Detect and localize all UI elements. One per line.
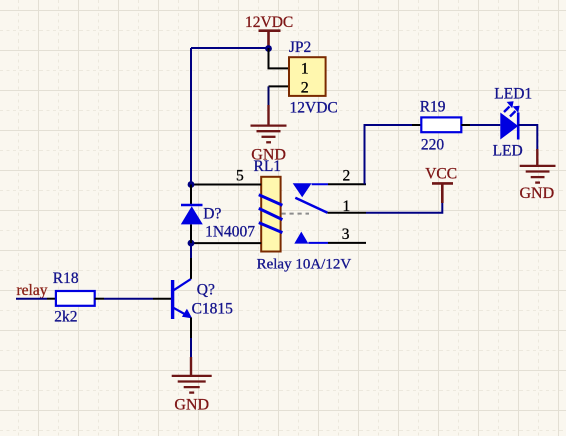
svg-text:LED: LED xyxy=(493,143,523,160)
svg-text:2k2: 2k2 xyxy=(54,309,77,326)
svg-text:GND: GND xyxy=(174,397,209,414)
ground GND (right of LED) xyxy=(520,149,556,202)
svg-text:3: 3 xyxy=(342,226,350,243)
wire pin2 to R19 xyxy=(365,125,413,184)
LED LED1 xyxy=(493,86,533,160)
svg-text:5: 5 xyxy=(236,168,244,185)
wire LED cathode to ground xyxy=(518,125,537,150)
diode D? pin top xyxy=(190,185,192,206)
relay contact NO (bottom triangle) xyxy=(294,232,328,244)
svg-text:Q?: Q? xyxy=(197,282,215,299)
resistor R18 xyxy=(47,270,104,325)
transistor Q1 C1815 xyxy=(173,279,234,319)
diode D? 1N4007 xyxy=(181,205,255,241)
wire relay net to R18 xyxy=(16,298,47,300)
wire top horizontal xyxy=(191,47,269,49)
junction 12VDC node xyxy=(265,45,272,52)
wire R19 to LED xyxy=(470,124,500,126)
svg-text:R18: R18 xyxy=(53,270,79,287)
svg-text:2: 2 xyxy=(343,168,351,185)
svg-text:JP2: JP2 xyxy=(289,39,311,56)
svg-text:220: 220 xyxy=(421,137,445,154)
svg-text:Relay 10A/12V: Relay 10A/12V xyxy=(257,257,352,273)
svg-text:C1815: C1815 xyxy=(192,301,234,318)
svg-text:VCC: VCC xyxy=(425,166,457,183)
svg-text:GND: GND xyxy=(520,185,555,202)
pin Q collector xyxy=(190,258,192,279)
ground GND (under JP2) xyxy=(251,105,287,164)
wire left vertical xyxy=(190,48,192,185)
svg-text:relay: relay xyxy=(17,282,48,299)
power port 12VDC (top) xyxy=(245,14,293,48)
ground GND (bottom, under Q) xyxy=(172,357,212,414)
svg-text:12VDC: 12VDC xyxy=(245,14,293,31)
pin 2 (contact) xyxy=(328,183,366,185)
power port VCC xyxy=(425,166,457,203)
resistor R19 xyxy=(412,99,470,154)
relay contact NC (top triangle) xyxy=(293,183,328,197)
svg-text:R19: R19 xyxy=(420,99,446,116)
pin 5 (coil top) xyxy=(191,184,261,186)
svg-text:D?: D? xyxy=(203,206,221,223)
wire JP2 pin2 to ground xyxy=(268,86,270,107)
connector JP2 xyxy=(269,39,338,116)
svg-text:12VDC: 12VDC xyxy=(290,99,338,116)
junction diode bottom node xyxy=(188,240,195,247)
svg-text:RL1: RL1 xyxy=(254,158,282,175)
pin Q emitter xyxy=(190,318,192,339)
pin (coil bottom) xyxy=(191,242,261,244)
pin 3 (contact) xyxy=(328,242,366,244)
wire collector to junction xyxy=(190,243,192,258)
svg-text:2: 2 xyxy=(301,80,309,97)
pin Q base xyxy=(153,298,171,300)
svg-text:LED1: LED1 xyxy=(494,86,532,103)
pin 1 (common contact) xyxy=(328,212,367,214)
wire pin1 to VCC xyxy=(366,202,442,213)
relay armature xyxy=(295,198,327,213)
relay actuation dashed link xyxy=(282,213,310,215)
svg-text:1: 1 xyxy=(343,198,351,215)
wire emitter to ground xyxy=(190,338,192,357)
junction diode top node xyxy=(188,181,195,188)
relay RL1 coil xyxy=(259,177,283,252)
diode D? pin bottom xyxy=(190,224,192,243)
svg-text:1N4007: 1N4007 xyxy=(205,224,255,241)
wire R18 to Q base xyxy=(104,298,153,300)
svg-text:1: 1 xyxy=(301,61,309,78)
